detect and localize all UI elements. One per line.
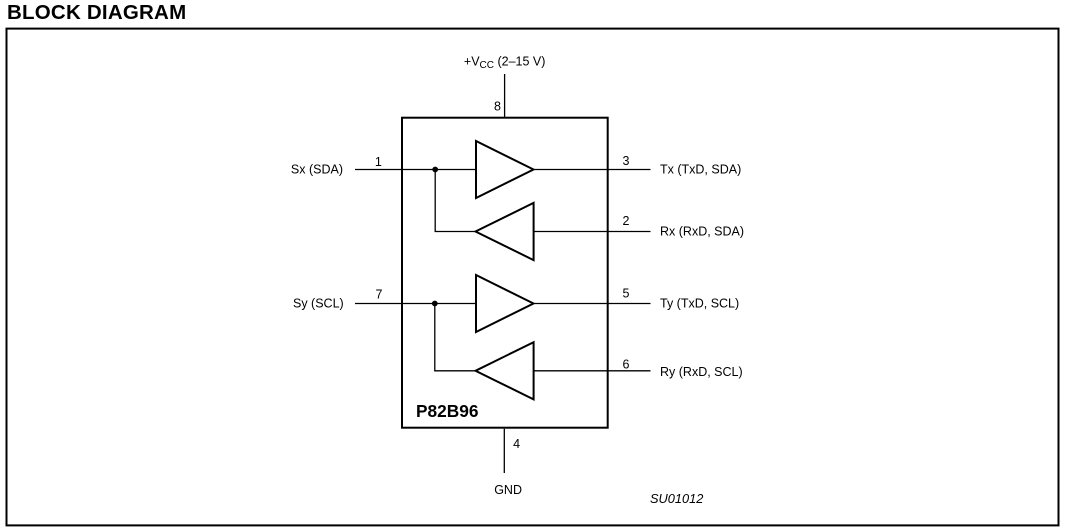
- svg-text:BLOCK DIAGRAM: BLOCK DIAGRAM: [7, 1, 186, 24]
- buffer Tx (SDA transmit): [476, 141, 534, 198]
- svg-text:Tx (TxD, SDA): Tx (TxD, SDA): [660, 163, 741, 177]
- IC block P82B96: [402, 118, 608, 428]
- svg-text:Sx (SDA): Sx (SDA): [291, 163, 343, 177]
- svg-text:8: 8: [494, 100, 501, 114]
- svg-text:P82B96: P82B96: [416, 401, 478, 421]
- svg-text:Ry (RxD, SCL): Ry (RxD, SCL): [660, 365, 743, 379]
- node junction Sy: [432, 301, 438, 307]
- wire pin 2 (Rx input): [534, 231, 651, 233]
- buffer Ry (SCL receive): [476, 342, 534, 399]
- svg-text:7: 7: [376, 288, 383, 302]
- svg-text:Sy (SCL): Sy (SCL): [293, 297, 344, 311]
- svg-text:GND: GND: [494, 483, 522, 497]
- wire pin 7 (Sy input): [355, 303, 476, 305]
- wire pin 1 (Sx input): [355, 169, 476, 171]
- svg-text:Ty (TxD, SCL): Ty (TxD, SCL): [660, 297, 739, 311]
- wire pin 4 (GND): [503, 429, 505, 473]
- svg-text:1: 1: [375, 155, 382, 169]
- svg-text:Rx (RxD, SDA): Rx (RxD, SDA): [660, 225, 744, 239]
- svg-text:SU01012: SU01012: [650, 491, 703, 506]
- buffer Rx (SDA receive): [476, 203, 534, 260]
- buffer Ty (SCL transmit): [476, 275, 534, 332]
- svg-text:4: 4: [513, 437, 520, 451]
- svg-text:5: 5: [623, 287, 630, 301]
- svg-text:6: 6: [623, 357, 630, 371]
- wire junction Sx to Rx buffer: [435, 170, 475, 232]
- wire pin 3 (Tx output): [534, 169, 651, 171]
- wire pin 5 (Ty output): [534, 303, 651, 305]
- svg-text:2: 2: [623, 214, 630, 228]
- wire pin 8 (VCC): [504, 74, 506, 117]
- svg-text:3: 3: [623, 154, 630, 168]
- wire junction Sy to Ry buffer: [435, 304, 476, 371]
- node junction Sx: [432, 167, 438, 173]
- wire pin 6 (Ry input): [534, 370, 651, 372]
